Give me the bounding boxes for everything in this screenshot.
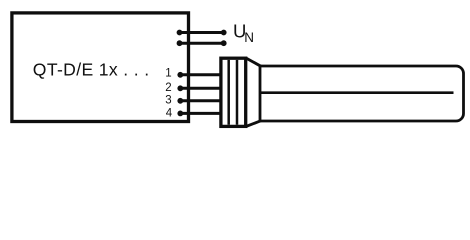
- wire lamp pin 1: [180, 73, 222, 76]
- lamp tube fold line: [260, 91, 454, 94]
- svg-text:4: 4: [166, 108, 173, 120]
- svg-text:2: 2: [165, 82, 171, 94]
- svg-text:3: 3: [165, 95, 171, 107]
- ballast box QT-D/E: [12, 13, 189, 122]
- terminal dot mains N left: [177, 40, 183, 46]
- lamp tube outline: [260, 66, 464, 121]
- svg-text:1: 1: [165, 68, 171, 80]
- lamp base rib 1: [227, 60, 230, 125]
- terminal dot mains N right: [221, 40, 227, 46]
- terminal dot mains L left: [177, 30, 183, 36]
- wire lamp pin 3: [180, 99, 222, 102]
- terminal dot pin 4: [177, 111, 183, 117]
- wire mains N: [180, 42, 224, 45]
- terminal dot pin 1: [177, 72, 183, 78]
- svg-text:QT-D/E 1x . . .: QT-D/E 1x . . .: [33, 60, 150, 80]
- wire lamp pin 4: [180, 112, 222, 115]
- lamp base rib 2: [236, 60, 239, 125]
- lamp base body: [221, 58, 246, 126]
- wire lamp pin 2: [180, 87, 222, 90]
- terminal dot pin 2: [177, 85, 183, 91]
- terminal dot mains L right: [221, 30, 227, 36]
- terminal dot pin 3: [177, 98, 183, 104]
- lamp base taper top: [246, 58, 261, 66]
- wire mains L: [180, 31, 224, 34]
- lamp base taper bottom: [246, 121, 261, 127]
- svg-text:N: N: [244, 30, 254, 45]
